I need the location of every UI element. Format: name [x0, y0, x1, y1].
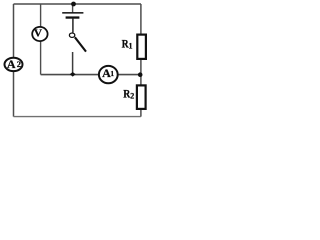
- wire right branch: [140, 4, 142, 117]
- node right junction: [138, 72, 143, 77]
- switch S1: [69, 33, 86, 52]
- ammeter A2: [5, 57, 23, 71]
- ammeter A1: [99, 66, 118, 83]
- node middle junction: [70, 72, 76, 77]
- node top junction: [71, 2, 76, 7]
- label R2: [123, 87, 134, 101]
- resistor R2: [137, 85, 146, 109]
- svg-text:1: 1: [110, 69, 114, 78]
- voltmeter V: [32, 27, 47, 41]
- svg-text:1: 1: [129, 41, 133, 50]
- battery B1: [62, 12, 83, 19]
- wire battery stub upper: [72, 4, 74, 12]
- svg-text:2: 2: [17, 59, 21, 69]
- label R1: [122, 37, 133, 51]
- wire switch-to-junction stub: [72, 52, 74, 75]
- wire voltmeter stub: [40, 4, 42, 75]
- wire bottom: [14, 116, 141, 118]
- svg-text:2: 2: [130, 91, 134, 100]
- wire left: [13, 4, 15, 117]
- svg-text:V: V: [34, 29, 43, 40]
- wire battery stub lower: [72, 19, 74, 33]
- resistor R1: [137, 35, 146, 59]
- svg-text:A: A: [7, 57, 16, 71]
- wire top: [14, 3, 142, 5]
- wire middle: [41, 74, 141, 76]
